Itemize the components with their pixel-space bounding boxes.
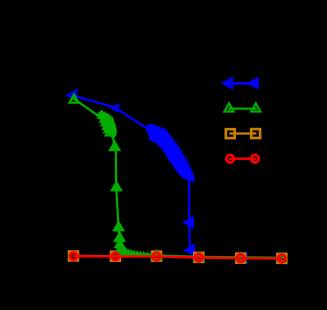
orange square markers xyxy=(69,252,286,263)
green dense marker band xyxy=(96,110,116,138)
red series line xyxy=(74,256,282,258)
green sparse markers xyxy=(69,95,286,261)
green series line xyxy=(74,99,282,258)
green tail shrinking markers xyxy=(115,239,153,257)
orange series line xyxy=(74,256,282,258)
legend green entry xyxy=(224,103,260,111)
legend red entry xyxy=(226,155,258,163)
legend blue entry xyxy=(223,78,257,88)
blue dense marker band xyxy=(146,124,194,182)
legend orange entry xyxy=(226,129,260,138)
blue series line xyxy=(72,95,281,258)
red circle markers xyxy=(70,252,286,262)
blue sparse markers xyxy=(68,91,286,264)
